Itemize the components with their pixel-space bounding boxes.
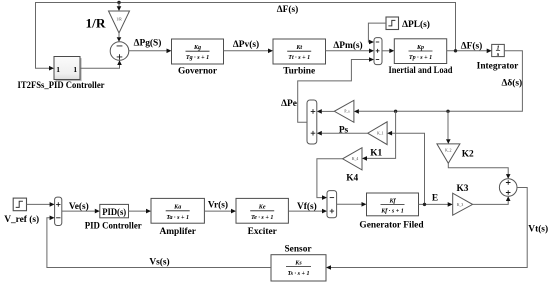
svg-text:ΔPe: ΔPe <box>281 99 297 109</box>
block Turbine Kt/(Tt s+1) <box>273 39 326 64</box>
svg-text:K_1: K_1 <box>377 132 384 136</box>
svg-text:Inertial and Load: Inertial and Load <box>389 66 454 76</box>
wire Integrator output Δδ(s) down and left to P_s gain <box>359 51 522 112</box>
svg-text:Vr(s): Vr(s) <box>208 200 228 211</box>
svg-text:K4: K4 <box>346 173 358 183</box>
svg-text:Kp: Kp <box>416 45 424 51</box>
svg-text:Amplifer: Amplifer <box>159 227 195 237</box>
gain P_s triangle <box>334 100 354 122</box>
wire sum S2 to Inertial and Load <box>382 50 390 52</box>
wire Governor to Turbine with label ΔPv(s) <box>224 50 269 52</box>
wire 1/R output into sum S1 top <box>118 33 120 37</box>
sum S1 (frequency error summer) circle <box>110 42 129 61</box>
svg-text:PID(s): PID(s) <box>102 207 126 217</box>
wire sum S5 to Generator Filed <box>337 203 362 205</box>
node junction Δδ line to K2 <box>446 110 449 113</box>
svg-text:Vs(s): Vs(s) <box>149 257 169 268</box>
gain K1 triangle <box>368 122 387 145</box>
svg-text:K3: K3 <box>457 184 469 194</box>
block Amplifer Ka/(Ta s+1) <box>151 198 204 223</box>
svg-text:Exciter: Exciter <box>248 227 277 237</box>
svg-text:Δδ(s): Δδ(s) <box>501 78 522 89</box>
block PID(s) controller <box>100 204 129 217</box>
block IT2FSs_PID Controller (subsystem) <box>56 58 82 81</box>
svg-text:1: 1 <box>73 65 77 74</box>
svg-text:V_ref (s): V_ref (s) <box>4 214 39 225</box>
block Governor Kg/(Tg s+1) <box>172 39 224 64</box>
wire P_s output into sum S3 upper port <box>322 110 335 112</box>
svg-text:P_s: P_s <box>344 110 350 114</box>
svg-text:ΔPg(S): ΔPg(S) <box>134 38 162 49</box>
svg-text:K_3: K_3 <box>457 203 464 207</box>
wire V_ref step to sum S4 <box>27 203 50 205</box>
svg-text:Turbine: Turbine <box>283 66 315 76</box>
wire Sensor output Vs(s) back to sum S4 minus port <box>47 218 271 268</box>
wire K1 output into sum S3 lower port with label Ps <box>322 132 368 134</box>
wire Inertial and Load to Integrator with label ΔF(s) <box>447 50 488 52</box>
svg-text:Integrator: Integrator <box>477 61 519 71</box>
svg-text:ΔPm(s): ΔPm(s) <box>333 40 362 51</box>
block Integrator 1/s <box>492 44 505 56</box>
block Inertial and Load Kp/(Tp s+1) <box>394 39 446 64</box>
svg-text:Generator Filed: Generator Filed <box>359 220 424 230</box>
wire K2 output down-right into sum circle S6 top <box>448 163 508 174</box>
svg-text:ΔPv(s): ΔPv(s) <box>233 39 259 50</box>
svg-text:Ka: Ka <box>173 205 181 211</box>
sum circle S6 (terminal voltage summer) <box>499 179 517 197</box>
wire top frequency feedback from ΔF(s) node to IT2FSs_PID Controller input <box>36 3 456 69</box>
wire PID to Amplifer <box>129 210 147 212</box>
node junction E to K1 <box>423 203 426 206</box>
svg-text:Governor: Governor <box>178 67 217 77</box>
gain K3 triangle <box>453 193 473 215</box>
step source V_ref <box>13 198 26 211</box>
node junction on top line feeding 1/R <box>117 1 120 4</box>
wire K4 output left-down into sum S5 top port <box>317 159 343 198</box>
svg-text:K2: K2 <box>462 149 474 159</box>
svg-text:E: E <box>432 194 438 204</box>
gain K4 triangle <box>343 148 362 170</box>
svg-text:ΔPL(s): ΔPL(s) <box>402 19 430 30</box>
svg-text:Vf(s): Vf(s) <box>297 201 317 212</box>
svg-text:K_2: K_2 <box>445 149 452 153</box>
node junction ΔF(s) to top feedback <box>454 49 457 52</box>
svg-text:Ta · s + 1: Ta · s + 1 <box>166 215 189 221</box>
svg-text:ΔF(s): ΔF(s) <box>277 4 299 15</box>
wire Exciter to sum S5 with label Vf(s) <box>288 210 322 212</box>
wire Amplifer to Exciter with label Vr(s) <box>204 210 231 212</box>
block Generator Filed Kf/(Kf s+1) <box>367 193 419 216</box>
wire ΔPe feedback from sum S3 up to sum S2 bottom port <box>298 60 370 123</box>
node junction Δδ line to K4 <box>394 110 397 113</box>
svg-text:Ps: Ps <box>339 125 349 135</box>
svg-text:K_4: K_4 <box>352 157 359 161</box>
wire top line down into 1/R gain <box>118 3 120 7</box>
wire sum S1 to Governor with label ΔPg(S) <box>129 50 167 52</box>
svg-text:Tp · s + 1: Tp · s + 1 <box>409 55 432 61</box>
block Sensor Ks/(Ts s+1) <box>271 255 326 281</box>
wire ΔPL step to sum S2 top port <box>368 23 386 42</box>
wire E node up into K1 gain <box>392 133 425 204</box>
svg-text:K1: K1 <box>370 148 382 158</box>
gain 1/R (droop) triangle <box>109 11 130 33</box>
wire Generator Filed to K3 with label E <box>419 203 449 205</box>
svg-text:ΔF(s): ΔF(s) <box>461 41 483 52</box>
svg-text:Kg: Kg <box>193 45 201 51</box>
svg-text:Vt(s): Vt(s) <box>528 224 548 235</box>
wire IT2FSs output up into sum S1 bottom <box>80 65 120 68</box>
wire Δδ down into K2 gain <box>447 111 449 139</box>
svg-text:PID Controller: PID Controller <box>85 221 142 231</box>
wire K3 output right-up into sum circle S6 bottom <box>473 201 509 205</box>
svg-text:Tt · s + 1: Tt · s + 1 <box>288 55 310 61</box>
step source ΔPL(s) <box>386 17 399 30</box>
block Exciter Ke/(Te s+1) <box>236 198 288 223</box>
svg-text:Ke: Ke <box>258 205 266 211</box>
svg-text:Te · s + 1: Te · s + 1 <box>251 215 273 221</box>
svg-text:Ve(s): Ve(s) <box>69 201 89 212</box>
sum S2 (power summer) rounded block <box>374 38 382 65</box>
wire sum S4 to PID with label Ve(s) <box>62 210 95 212</box>
wire sum S6 output Vt(s) down to Sensor <box>331 188 528 268</box>
svg-text:1: 1 <box>56 65 60 74</box>
svg-text:Kf: Kf <box>388 198 396 204</box>
gain K2 triangle <box>437 144 460 163</box>
svg-text:Kt: Kt <box>295 45 302 51</box>
sum S5 (field voltage summer) rounded block <box>327 191 337 218</box>
svg-text:1/R: 1/R <box>116 18 122 22</box>
svg-text:Tg · s + 1: Tg · s + 1 <box>186 55 209 61</box>
svg-text:Sensor: Sensor <box>284 245 311 255</box>
svg-text:Ts · s + 1: Ts · s + 1 <box>287 271 309 277</box>
svg-text:1/R: 1/R <box>86 17 107 31</box>
sum S3 (ΔPe summer) rounded block <box>307 100 317 144</box>
svg-text:IT2FSs_PID Controller: IT2FSs_PID Controller <box>18 81 106 91</box>
wire Δδ down and left into K4 gain <box>367 111 396 158</box>
wire Turbine to sum S2 with label ΔPm(s) <box>326 50 370 52</box>
svg-text:Kf · s + 1: Kf · s + 1 <box>380 209 404 215</box>
sum S4 (AVR reference summer) rounded block <box>55 197 62 225</box>
svg-text:Ks: Ks <box>294 260 302 266</box>
